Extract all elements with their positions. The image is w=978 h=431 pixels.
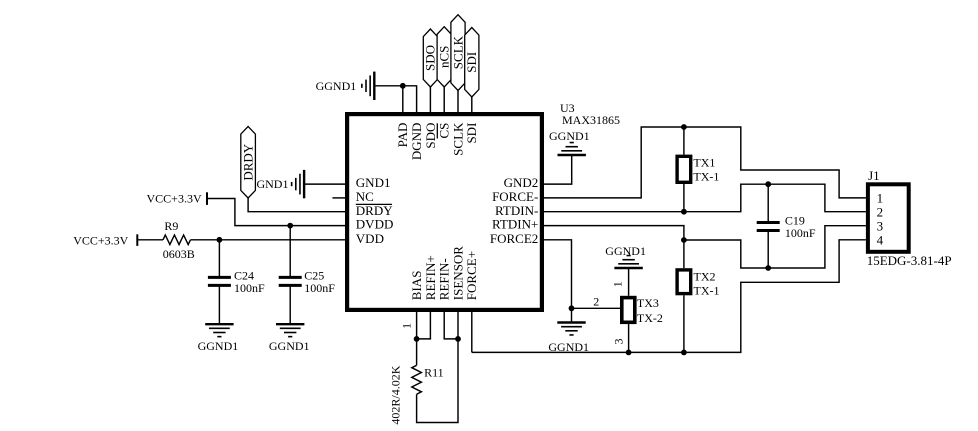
wire R9 to VDD pin — [191, 239, 346, 241]
ground GGND1 (C25) — [276, 324, 304, 336]
wire ground drop (TX3 pin2) — [571, 308, 573, 322]
svg-text:R11: R11 — [424, 365, 444, 379]
wire RTDIN+ to C19 bottom rail to J1 pin 3 — [544, 226, 866, 268]
junction TX1 top — [681, 124, 687, 130]
capacitor C25 100nF — [279, 269, 336, 295]
wire SDI flag to pin — [471, 97, 473, 112]
svg-text:BIAS: BIAS — [409, 271, 424, 301]
svg-text:DRDY: DRDY — [240, 143, 255, 180]
svg-text:100nF: 100nF — [785, 226, 816, 240]
svg-text:GGND1: GGND1 — [316, 79, 357, 93]
junction DVDD/C25 — [287, 223, 293, 229]
power bar VCC+3.3V (VDD) — [136, 234, 138, 246]
svg-text:SDO: SDO — [423, 123, 438, 149]
junction REFIN-/ISENSOR — [455, 336, 461, 342]
svg-text:PAD: PAD — [395, 123, 410, 148]
transformer TX3 body — [622, 298, 635, 323]
port SDO — [423, 29, 438, 87]
wire VCC to R9 — [137, 239, 163, 241]
wire FORCE- to J1 pin 1 — [544, 127, 866, 198]
capacitor C24 100nF — [208, 269, 265, 295]
svg-text:3: 3 — [611, 339, 625, 345]
svg-text:1: 1 — [877, 191, 884, 206]
wire C19 down-leg — [767, 231, 769, 269]
junction TX1/RTDIN- — [681, 209, 687, 215]
svg-text:NC: NC — [356, 189, 374, 204]
wire VCC to DVDD pin — [207, 199, 345, 226]
svg-text:3: 3 — [877, 218, 884, 233]
ground GGND1 (top, PAD/DGND) — [362, 72, 374, 100]
capacitor C19 100nF — [757, 214, 816, 240]
wire junction to R11 — [416, 339, 418, 365]
junction TX2 top — [681, 237, 687, 243]
transformer TX1 body — [677, 156, 691, 182]
resistor R11 — [412, 365, 422, 394]
wire ground to DGND corner — [374, 86, 416, 112]
svg-text:ISENSOR: ISENSOR — [450, 246, 465, 301]
port SCLK — [450, 15, 465, 91]
svg-text:SDI: SDI — [464, 52, 479, 73]
port SDI — [464, 28, 479, 98]
svg-text:100nF: 100nF — [234, 281, 265, 295]
wire RTDIN- to C19 rail to J1 pin 2 — [544, 184, 866, 212]
wire DRDY port to pin — [248, 198, 345, 212]
wire ground to GND1 pin — [304, 183, 345, 185]
svg-text:MAX31865: MAX31865 — [562, 113, 620, 127]
wire C19 up-leg — [767, 184, 769, 222]
svg-text:VCC+3.3V: VCC+3.3V — [147, 192, 202, 206]
wire FORCE+ down — [471, 312, 473, 352]
svg-text:0603B: 0603B — [163, 247, 195, 261]
power bar VCC+3.3V (DVDD) — [206, 192, 208, 205]
svg-text:2: 2 — [877, 204, 884, 219]
junction TX3 pin2/ground — [569, 305, 575, 311]
wire TX2 bottom leg — [683, 295, 685, 352]
wire nCS flag to pin — [443, 87, 445, 112]
svg-text:TX2: TX2 — [694, 270, 716, 284]
svg-text:RTDIN+: RTDIN+ — [492, 217, 538, 232]
wire C24 up-leg — [218, 240, 220, 278]
wire SCLK flag to pin — [457, 91, 459, 113]
op-amp U3 MAX31865 body — [347, 114, 542, 310]
wire R11 bottom loop — [417, 339, 458, 423]
resistor R9 — [163, 235, 190, 245]
ground GGND1 (GND2, inverted) — [558, 143, 586, 155]
svg-text:REFIN+: REFIN+ — [423, 255, 438, 300]
ground GGND1 (TX3 pin2) — [557, 323, 585, 335]
svg-text:GND2: GND2 — [504, 175, 539, 190]
wire C24 down-leg — [218, 285, 220, 324]
svg-text:J1: J1 — [868, 168, 880, 183]
svg-text:FORCE-: FORCE- — [492, 189, 538, 204]
svg-text:TX-1: TX-1 — [693, 169, 719, 183]
svg-text:SCLK: SCLK — [450, 35, 465, 69]
svg-text:15EDG-3.81-4P: 15EDG-3.81-4P — [867, 253, 952, 268]
ground GGND1 (at GND1 pin) — [292, 170, 304, 198]
wire bottom rail FORCE+ to J1 pin 4 — [472, 240, 866, 353]
wire FORCE2 to TX3 pin 2 — [544, 240, 620, 308]
wire BIAS to junction — [416, 312, 418, 339]
svg-text:TX-2: TX-2 — [637, 311, 663, 325]
junction C19 top — [765, 181, 771, 187]
junction BIAS/REFIN+ — [414, 336, 420, 342]
svg-text:VDD: VDD — [356, 231, 384, 246]
svg-text:GGND1: GGND1 — [198, 339, 239, 353]
pin CS overline — [436, 123, 438, 138]
svg-text:4: 4 — [877, 233, 884, 248]
wire REFIN- to junction — [444, 312, 458, 339]
wire TX3 pin 1 — [628, 268, 630, 296]
svg-text:TX-1: TX-1 — [694, 284, 720, 298]
svg-text:DVDD: DVDD — [356, 217, 394, 232]
transformer TX2 body — [677, 270, 691, 294]
svg-text:SDI: SDI — [464, 123, 479, 144]
svg-text:1: 1 — [400, 323, 414, 329]
svg-text:402R/4.02K: 402R/4.02K — [389, 365, 403, 424]
wire C25 down-leg — [289, 285, 291, 324]
svg-text:TX3: TX3 — [637, 296, 659, 310]
svg-text:100nF: 100nF — [304, 281, 335, 295]
svg-text:CS: CS — [437, 123, 452, 139]
ground GGND1 (above TX3, inverted) — [614, 256, 642, 268]
ground GGND1 (C24) — [205, 324, 233, 336]
pin DRDY overline — [356, 203, 392, 205]
junction TX3/bottom rail — [626, 350, 632, 356]
wire TX1 top leg — [683, 127, 685, 155]
svg-text:2: 2 — [593, 295, 599, 309]
svg-text:DRDY: DRDY — [356, 203, 393, 218]
svg-text:nCS: nCS — [437, 46, 452, 68]
svg-text:DGND: DGND — [409, 123, 424, 161]
svg-text:FORCE2: FORCE2 — [490, 231, 538, 246]
svg-text:VCC+3.3V: VCC+3.3V — [73, 233, 128, 247]
wire TX1 bottom leg — [683, 184, 685, 212]
svg-text:FORCE+: FORCE+ — [464, 251, 479, 300]
wire C25 up-leg — [289, 226, 291, 278]
svg-text:REFIN-: REFIN- — [437, 258, 452, 300]
junction C19 bottom — [765, 265, 771, 271]
svg-text:SCLK: SCLK — [450, 122, 465, 156]
svg-text:GGND1: GGND1 — [549, 129, 590, 143]
wire SDO flag to pin — [429, 87, 431, 112]
wire ISENSOR to junction — [457, 312, 459, 339]
connector J1 body — [868, 184, 909, 252]
svg-text:SDO: SDO — [423, 45, 438, 71]
port DRDY — [240, 127, 255, 199]
wire GND2 pin to ground — [544, 155, 572, 184]
svg-text:GGND1: GGND1 — [605, 244, 646, 258]
svg-text:GND1: GND1 — [356, 175, 391, 190]
wire REFIN+ to junction — [417, 312, 431, 339]
svg-text:1: 1 — [611, 281, 625, 287]
svg-text:TX1: TX1 — [693, 156, 715, 170]
svg-text:GGND1: GGND1 — [269, 339, 310, 353]
junction VDD/C24 — [217, 237, 223, 243]
wire NC stub — [332, 197, 345, 199]
junction TX2/bottom rail — [681, 350, 687, 356]
port nCS — [437, 27, 452, 87]
svg-text:RTDIN-: RTDIN- — [495, 203, 538, 218]
wire TX2 top leg — [683, 240, 685, 268]
wire TX3 pin 3 — [628, 324, 630, 352]
junction PAD/DGND ground — [400, 83, 406, 89]
svg-text:R9: R9 — [164, 219, 178, 233]
wire PAD drop — [402, 86, 404, 112]
